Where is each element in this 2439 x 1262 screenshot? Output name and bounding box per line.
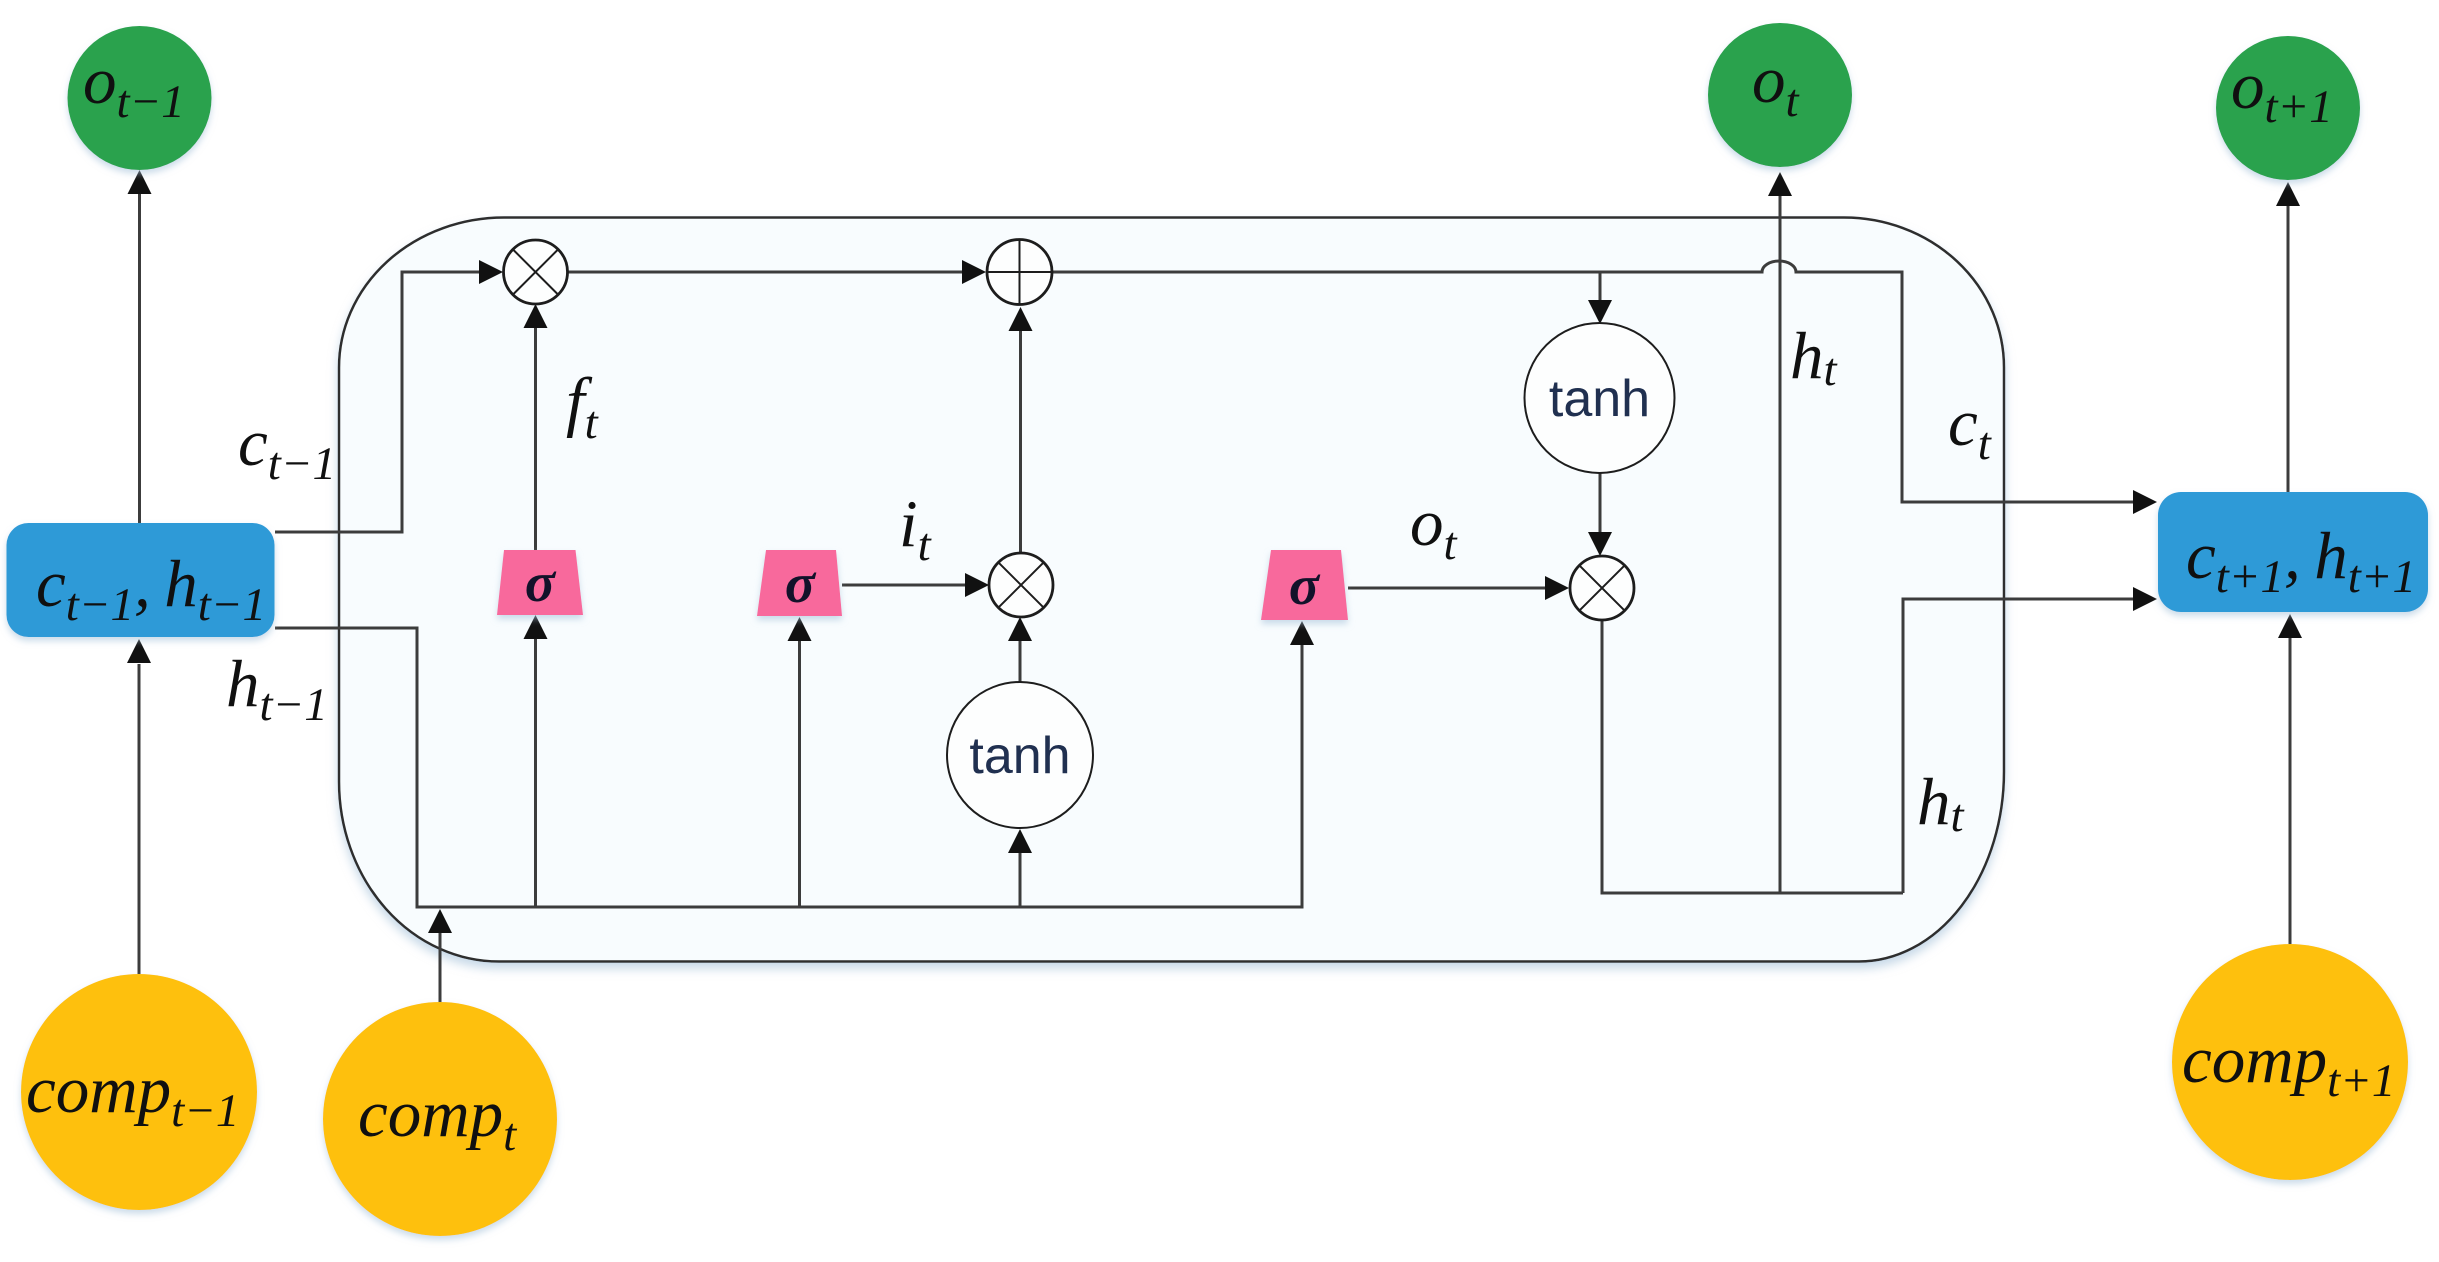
tanh node T2 [947,682,1093,828]
node comp_(t+1) [2172,944,2408,1180]
wire comp_(t+1) input [2289,638,2292,944]
node comp_t [323,1002,557,1236]
wire input bus h_(t-1) [275,626,1302,907]
multiply node X1 [504,240,568,304]
wire tanh2 to multiply2 [1019,622,1022,828]
node o_t [1708,23,1852,167]
wire cell line plus to c_t corner into next state [1052,261,2154,502]
wire c_(t-1) from state box to multiply [275,272,500,532]
LSTM cell boundary [339,218,2004,962]
svg-text:tanh: tanh [969,727,1070,785]
sigma gate 3 [1261,550,1348,620]
wire input to tanh2 [1019,834,1022,907]
wire multiply2 to plus [1019,312,1022,553]
state box c_(t+1) h_(t+1) [2158,492,2428,612]
svg-text:tanh: tanh [1549,370,1650,428]
svg-text:σ: σ [785,553,817,615]
wire tanh1 to multiply3 [1599,473,1602,551]
wire cell line x1 to plus [568,271,984,274]
state box c_(t-1) h_(t-1) [7,523,275,637]
svg-text:compt: compt [358,1077,517,1161]
wire input to sigma2 [798,622,801,907]
wire f_t sigma1 to multiply [534,310,537,550]
wire input to sigma1 [534,620,537,907]
wire comp_t input [439,933,442,1004]
node comp_(t-1) [21,974,257,1210]
wire o_(t-1) output [138,192,141,523]
add node P1 [987,240,1052,305]
multiply node X2 [989,553,1053,617]
sigma gate 1 [497,550,583,615]
wire state box to o_(t+1) [2287,206,2290,492]
wire multiply3 down and right [1602,620,1903,893]
wire comp_(t-1) input [138,664,141,974]
multiply node X3 [1570,556,1634,620]
sigma gate 2 [757,550,842,616]
wire o_t sigma3 to multiply3 [1348,587,1566,590]
tanh node T1 [1525,323,1675,473]
node o_(t+1) [2216,36,2360,180]
wire h_t up to o_t [1779,196,1782,893]
node o_(t-1) [68,26,212,170]
svg-text:σ: σ [1289,555,1321,617]
wire cell line to tanh1 [1599,272,1602,319]
wire h_t to next state box [1903,599,2154,893]
wire i_t sigma2 to multiply2 [842,584,985,587]
svg-text:σ: σ [525,552,557,614]
